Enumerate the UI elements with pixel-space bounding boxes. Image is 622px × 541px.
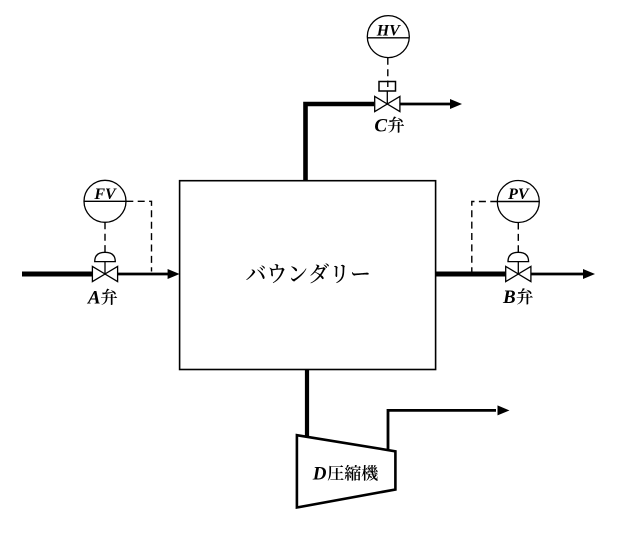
svg-text:D: D bbox=[312, 463, 327, 484]
svg-text:A: A bbox=[87, 288, 101, 309]
svg-text:B: B bbox=[502, 287, 516, 308]
svg-text:FV: FV bbox=[93, 186, 117, 203]
svg-text:HV: HV bbox=[376, 22, 401, 39]
svg-text:C: C bbox=[374, 115, 387, 136]
svg-text:PV: PV bbox=[507, 186, 530, 203]
